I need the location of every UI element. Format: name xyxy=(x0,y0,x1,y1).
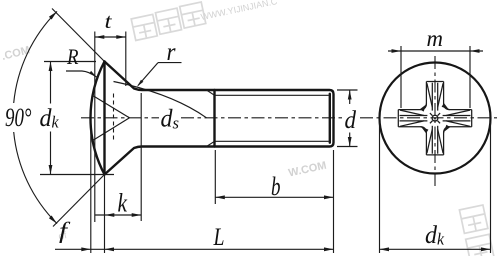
svg-text:k: k xyxy=(437,230,444,249)
svg-text:k: k xyxy=(118,189,128,218)
svg-text:m: m xyxy=(427,26,444,51)
svg-text:b: b xyxy=(271,172,281,201)
svg-text:R: R xyxy=(66,44,79,69)
svg-text:r: r xyxy=(167,39,176,66)
svg-text:d: d xyxy=(40,105,52,132)
svg-text:d: d xyxy=(161,106,173,133)
svg-text:90°: 90° xyxy=(5,103,32,132)
svg-text:d: d xyxy=(345,107,357,134)
svg-text:s: s xyxy=(173,114,180,133)
svg-text:k: k xyxy=(52,113,59,132)
svg-text:L: L xyxy=(213,224,225,251)
svg-text:d: d xyxy=(425,222,437,249)
